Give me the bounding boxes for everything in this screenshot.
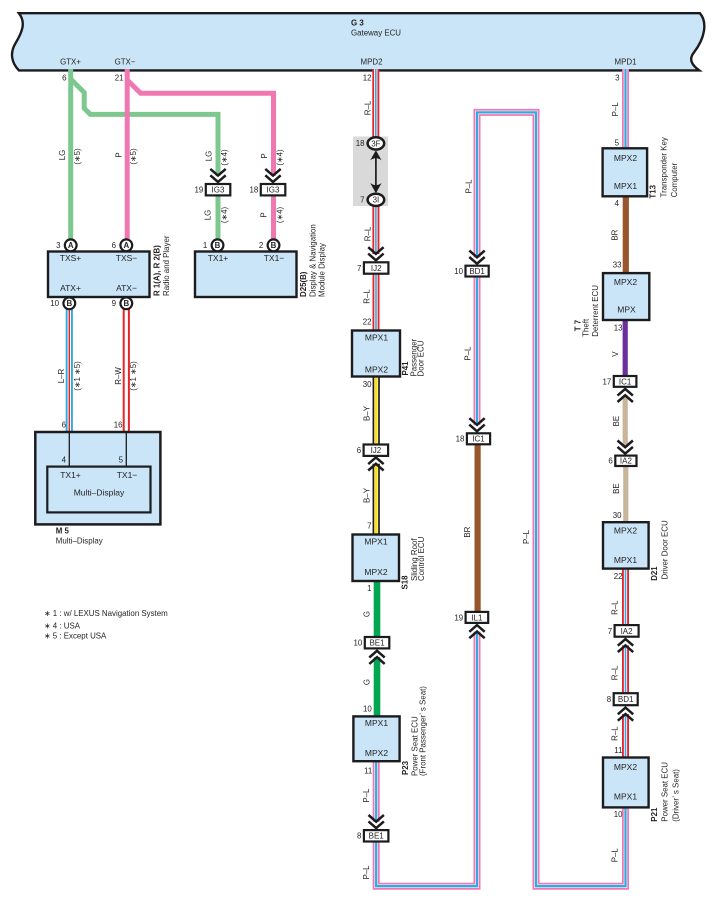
svg-text:BE1: BE1	[369, 832, 385, 841]
svg-text:IG3: IG3	[267, 186, 280, 195]
svg-text:P–L: P–L	[610, 848, 619, 863]
legend notes	[44, 609, 168, 641]
svg-text:19: 19	[194, 186, 203, 195]
label (*4) below IG3 pink	[276, 207, 285, 224]
label (*4) above IG3 green	[220, 149, 229, 166]
svg-text:MPX1: MPX1	[614, 181, 637, 191]
svg-text:10: 10	[363, 704, 372, 713]
pin 11 P21	[614, 746, 622, 755]
arrow into BD1 pin 10	[469, 251, 484, 264]
wire LG branch to junction IG3	[71, 79, 218, 176]
svg-text:22: 22	[614, 572, 623, 581]
label P-L below BE1	[362, 865, 371, 880]
svg-text:A: A	[123, 241, 129, 250]
svg-text:(∗1 ∗5): (∗1 ∗5)	[129, 361, 138, 391]
svg-text:P23: P23	[401, 760, 410, 775]
svg-text:R–L: R–L	[363, 289, 372, 304]
P23 terminal labels	[365, 718, 388, 758]
junction connector BE1 pin 10	[353, 637, 389, 648]
M5 name	[56, 526, 103, 545]
label P *4 below IG3	[260, 212, 269, 217]
svg-text:R–L: R–L	[611, 665, 620, 680]
svg-text:MPD2: MPD2	[361, 58, 383, 67]
svg-text:(∗4): (∗4)	[276, 149, 285, 166]
svg-text:MPX1: MPX1	[364, 537, 387, 547]
wire R-L junction IJ2 to P41 pin 22	[373, 273, 380, 332]
pin 12 MPD2	[363, 74, 372, 83]
svg-text:Theft: Theft	[582, 318, 591, 337]
label P *5	[115, 152, 124, 157]
label B-Y above S18	[363, 487, 372, 503]
svg-text:Display & Navigation: Display & Navigation	[309, 224, 318, 297]
label G3	[351, 18, 401, 37]
label BR center	[463, 526, 472, 537]
svg-text:Radio and Player: Radio and Player	[162, 235, 171, 296]
svg-text:BE: BE	[612, 416, 621, 427]
svg-text:4: 4	[62, 456, 67, 465]
P41 terminal labels	[365, 333, 388, 375]
svg-text:P: P	[260, 153, 269, 158]
svg-text:IJ2: IJ2	[371, 446, 382, 455]
junction connector IG3 pin 19	[194, 184, 230, 195]
pin 3 MPD1	[615, 73, 620, 82]
svg-text:BR: BR	[611, 229, 620, 240]
svg-text:G 3: G 3	[351, 18, 364, 27]
junction connector IA2 pin 6	[608, 456, 636, 466]
svg-text:17: 17	[603, 377, 612, 386]
svg-text:18: 18	[456, 435, 465, 444]
P23 name	[401, 686, 428, 776]
junction connector BD1 pin 10	[454, 266, 488, 277]
svg-text:30: 30	[613, 511, 622, 520]
svg-text:P: P	[260, 212, 269, 217]
svg-text:MPX: MPX	[617, 305, 636, 315]
junction connector IC1 pin 18	[456, 433, 490, 444]
svg-text:S18: S18	[401, 575, 410, 590]
svg-text:MPX2: MPX2	[614, 762, 637, 772]
svg-text:10: 10	[50, 299, 59, 308]
wire P-L junction BD1 to junction IC1	[474, 276, 481, 425]
label (*1 *5) right	[129, 361, 138, 391]
svg-text:G: G	[362, 679, 371, 685]
svg-text:(∗4): (∗4)	[220, 207, 229, 224]
radio box terminal labels	[60, 253, 138, 293]
svg-text:6: 6	[357, 446, 362, 455]
wire BE junction IC1 to junction IA2	[623, 395, 628, 447]
wire BE junction IA2 to D21 pin 30	[623, 466, 628, 523]
svg-text:P: P	[115, 152, 124, 157]
M5 internal wires	[69, 432, 126, 467]
M5 pin numbers	[62, 421, 124, 465]
svg-text:P–L: P–L	[464, 346, 473, 361]
wire B-Y P41 pin 30 to junction IJ2	[373, 376, 380, 445]
svg-text:33: 33	[613, 260, 622, 269]
connector oval 3F pin 18	[356, 137, 384, 149]
svg-text:IA2: IA2	[620, 457, 633, 466]
terminal circle B pin 10	[50, 297, 75, 309]
ECU box R1(A),R2(B) Radio and Player	[48, 252, 150, 298]
svg-text:BD1: BD1	[469, 267, 485, 276]
svg-text:(Front Passenger’ s Seat): (Front Passenger’ s Seat)	[419, 686, 428, 776]
svg-text:MPX2: MPX2	[614, 153, 637, 163]
label P-L loop left	[465, 179, 474, 194]
wire B-Y junction IJ2 to S18 pin 7	[373, 464, 380, 535]
svg-text:5: 5	[615, 138, 620, 147]
shield connector block 3F-3I background	[353, 137, 388, 207]
svg-text:Power Seat ECU: Power Seat ECU	[660, 762, 669, 822]
ECU box D25(B) Display and Navigation Module Display	[195, 252, 297, 298]
wire R-L MPD2 pin 12 to connector 3F	[372, 69, 379, 139]
svg-text:P–L: P–L	[522, 529, 531, 544]
svg-text:1: 1	[203, 241, 207, 250]
label LG *5	[58, 150, 67, 161]
svg-text:BE: BE	[612, 483, 621, 494]
D25 box terminal labels	[208, 253, 285, 263]
svg-text:(∗4): (∗4)	[276, 207, 285, 224]
svg-text:Door ECU: Door ECU	[416, 340, 425, 376]
label R-L above P41	[363, 289, 372, 304]
svg-text:∗ 4 : USA: ∗ 4 : USA	[44, 621, 81, 630]
wire BR junction IC1 to junction IL1	[475, 444, 481, 613]
arrow out of IJ2 pin 6	[368, 457, 383, 470]
label V	[611, 351, 620, 357]
ECU box M5 Multi-Display outer	[35, 432, 160, 524]
svg-text:B: B	[66, 299, 72, 308]
arrow out of BE1 pin 10	[369, 651, 384, 664]
label (*5) left pink	[129, 148, 138, 165]
svg-text:(∗1 ∗5): (∗1 ∗5)	[73, 361, 82, 391]
svg-text:12: 12	[363, 74, 372, 83]
svg-text:IC1: IC1	[472, 435, 485, 444]
label R-L below D21	[611, 600, 620, 615]
terminal circle A pin 6	[112, 239, 133, 251]
svg-text:ATX−: ATX−	[116, 283, 137, 293]
wire G junction BE1 to P23 pin 10	[374, 657, 381, 717]
svg-text:TX1−: TX1−	[117, 470, 138, 480]
svg-text:TXS−: TXS−	[116, 253, 138, 263]
junction connector IJ2 pin 7	[357, 262, 388, 273]
terminal circle B pin 2	[259, 239, 279, 251]
label B-Y below P41	[363, 405, 372, 421]
wire P-L junction BE1 to junction IL1	[376, 632, 477, 887]
svg-text:22: 22	[363, 318, 372, 327]
T13 name	[649, 137, 679, 198]
svg-text:IA2: IA2	[621, 627, 634, 636]
P21 terminal labels	[614, 762, 637, 802]
ECU box P41 Passenger Door ECU	[352, 331, 400, 377]
label (*4) below IG3 green	[220, 207, 229, 224]
junction connector IG3 pin 18	[249, 184, 285, 195]
junction connector IA2 pin 7	[608, 625, 639, 637]
svg-text:L–R: L–R	[57, 368, 66, 383]
label (*4) above IG3 pink	[276, 149, 285, 166]
svg-text:4: 4	[615, 199, 620, 208]
radio box name	[153, 235, 172, 296]
gateway ECU bus bar G3	[12, 13, 704, 70]
svg-text:3I: 3I	[373, 196, 380, 205]
S18 name	[401, 536, 427, 589]
pin 4 T13	[615, 199, 620, 208]
T7 terminal labels	[614, 277, 637, 315]
arrow out of IA2 pin 7	[618, 639, 633, 652]
svg-text:MPD1: MPD1	[615, 58, 637, 67]
svg-text:Driver Door ECU: Driver Door ECU	[660, 520, 669, 579]
svg-text:13: 13	[614, 324, 623, 333]
pin 21 GTX-	[115, 73, 124, 82]
svg-text:∗ 1 : w/ LEXUS Navigation Syst: ∗ 1 : w/ LEXUS Navigation System	[44, 609, 168, 618]
ECU box P21 Power Seat ECU driver	[603, 758, 649, 808]
svg-text:V: V	[611, 351, 620, 357]
D25 box name	[299, 224, 327, 297]
svg-text:3: 3	[56, 241, 61, 250]
pin 10 P21	[614, 810, 623, 819]
svg-text:9: 9	[112, 299, 117, 308]
pin 22 D21	[614, 572, 623, 581]
svg-text:MPX2: MPX2	[365, 365, 388, 375]
junction connector IC1 pin 17	[603, 376, 637, 387]
wire P-L P23 pin 11 to junction BE1	[373, 761, 380, 822]
svg-text:(∗4): (∗4)	[220, 149, 229, 166]
svg-text:P–L: P–L	[611, 102, 620, 117]
ECU box D21 Driver Door ECU	[603, 522, 649, 568]
pin 13 T7	[614, 324, 623, 333]
wire LG junction IG3 to D25 TX1+	[216, 195, 221, 246]
svg-text:2: 2	[259, 241, 263, 250]
svg-text:7: 7	[608, 627, 612, 636]
P21 name	[650, 762, 681, 822]
svg-text:MPX1: MPX1	[614, 555, 637, 565]
svg-text:MPX1: MPX1	[365, 718, 388, 728]
label G above P23	[362, 679, 371, 685]
svg-text:11: 11	[614, 746, 622, 755]
wire P from GTX- pin 21 to radio TXS-	[125, 69, 130, 246]
svg-text:MPX2: MPX2	[365, 748, 388, 758]
svg-text:6: 6	[62, 421, 67, 430]
ECU box T13 Transponder Key Computer	[603, 148, 648, 196]
terminal circle B pin 9	[112, 297, 133, 309]
svg-text:7: 7	[357, 264, 361, 273]
svg-text:A: A	[68, 241, 74, 250]
T7 name	[574, 285, 600, 337]
svg-text:LG: LG	[205, 151, 214, 162]
pin 30 P41	[363, 380, 372, 389]
svg-text:16: 16	[114, 421, 123, 430]
svg-text:8: 8	[607, 695, 612, 704]
arrow out of IL1 pin 19	[469, 625, 484, 638]
svg-text:R–L: R–L	[611, 600, 620, 615]
svg-text:TX1−: TX1−	[264, 253, 285, 263]
arrow out of IC1 pin 17	[618, 389, 633, 402]
arrow into IJ2 pin 7	[368, 247, 383, 260]
svg-text:R–L: R–L	[611, 726, 620, 741]
svg-text:R 1(A), R 2(B): R 1(A), R 2(B)	[153, 245, 162, 296]
svg-text:GTX+: GTX+	[60, 58, 81, 67]
wire R-L connector 3I to junction IJ2	[372, 205, 379, 254]
pin 7 S18	[367, 522, 371, 531]
svg-text:5: 5	[119, 456, 124, 465]
svg-text:10: 10	[614, 810, 623, 819]
pin 30 D21	[613, 511, 622, 520]
wire P-L MPD1 pin 3 to T13 pin 5	[622, 69, 629, 149]
svg-text:(Driver’ s Seat): (Driver’ s Seat)	[672, 769, 681, 822]
svg-text:B: B	[123, 299, 129, 308]
label BE above IA2	[612, 416, 621, 427]
svg-text:7: 7	[367, 522, 371, 531]
arrow into BE1 pin 8	[369, 815, 384, 828]
svg-text:6: 6	[608, 457, 613, 466]
T13 terminal labels	[614, 153, 637, 191]
label (*5) left green	[73, 148, 82, 165]
svg-text:B: B	[271, 241, 277, 250]
arrow out of BD1 pin 8	[618, 708, 633, 721]
svg-text:21: 21	[115, 73, 124, 82]
label R-L above BD1	[611, 665, 620, 680]
svg-text:11: 11	[364, 766, 372, 775]
label R-L below 3I	[363, 226, 372, 241]
svg-text:MPX2: MPX2	[364, 567, 387, 577]
label G below S18	[362, 611, 371, 617]
svg-text:6: 6	[62, 73, 67, 82]
ECU box P23 Power Seat ECU front passenger	[353, 716, 399, 761]
pin 22 P41	[363, 318, 372, 327]
svg-text:MPX2: MPX2	[614, 277, 637, 287]
svg-text:Multi–Display: Multi–Display	[56, 537, 103, 546]
wire R-L D21 pin 22 to junction IA2	[622, 568, 629, 626]
label P-L below P23	[362, 788, 371, 803]
svg-text:G: G	[362, 611, 371, 617]
svg-text:(∗5): (∗5)	[73, 148, 82, 165]
label R-L above 3F	[363, 100, 372, 115]
svg-text:GTX−: GTX−	[115, 58, 136, 67]
svg-text:TX1+: TX1+	[208, 253, 229, 263]
svg-text:1: 1	[367, 584, 371, 593]
junction connector BD1 pin 8	[607, 693, 638, 705]
svg-text:B–Y: B–Y	[363, 487, 372, 503]
svg-text:Transponder Key: Transponder Key	[660, 137, 669, 197]
pin 1 S18	[367, 584, 371, 593]
D21 name	[650, 520, 669, 581]
wire L-R radio ATX+ to multi-display	[66, 309, 73, 433]
svg-text:BE1: BE1	[369, 639, 385, 648]
junction connector IJ2 pin 6	[357, 445, 388, 456]
label LG *4 below IG3	[204, 210, 213, 221]
P41 name	[401, 338, 425, 376]
svg-text:D21: D21	[650, 566, 659, 581]
svg-text:ATX+: ATX+	[60, 283, 81, 293]
wire G S18 pin 1 to junction BE1	[374, 581, 381, 638]
svg-text:R–L: R–L	[363, 100, 372, 115]
svg-text:Deterrent ECU: Deterrent ECU	[591, 285, 600, 337]
terminal circle B pin 1	[203, 239, 223, 251]
ECU box S18 Sliding Roof Control ECU	[353, 535, 400, 582]
svg-text:IG3: IG3	[212, 186, 225, 195]
label L-R	[57, 368, 66, 383]
svg-text:∗ 5 : Except USA: ∗ 5 : Except USA	[44, 632, 107, 641]
wire R-L junction IA2 to junction BD1	[622, 645, 629, 693]
svg-text:10: 10	[353, 639, 362, 648]
junction connector BE1 pin 8	[357, 830, 388, 841]
svg-text:Control ECU: Control ECU	[417, 536, 426, 581]
pin 33 T7	[613, 260, 622, 269]
svg-text:D25(B): D25(B)	[299, 271, 308, 297]
svg-text:B: B	[215, 241, 221, 250]
label (*1 *5) left	[73, 361, 82, 391]
svg-text:P–L: P–L	[362, 788, 371, 803]
label BE above D21	[612, 483, 621, 494]
wire BR T13 pin 4 to T7 pin 33	[623, 196, 629, 274]
svg-text:P–L: P–L	[465, 179, 474, 194]
svg-text:P21: P21	[650, 807, 659, 822]
svg-text:B–Y: B–Y	[363, 405, 372, 421]
svg-text:19: 19	[454, 613, 463, 622]
svg-text:MPX2: MPX2	[614, 526, 637, 536]
svg-text:Module Display: Module Display	[318, 243, 327, 297]
svg-text:(∗5): (∗5)	[129, 148, 138, 165]
connector oval 3I pin 7	[360, 194, 384, 206]
arrow into IG3 pin 19	[210, 169, 225, 182]
M5 inner module box	[47, 467, 150, 513]
svg-text:7: 7	[360, 196, 364, 205]
svg-text:LG: LG	[58, 150, 67, 161]
svg-text:P–L: P–L	[362, 865, 371, 880]
arrow into IA2 pin 6	[618, 441, 633, 454]
label P-L below MPD1	[611, 102, 620, 117]
svg-text:MPX1: MPX1	[365, 333, 388, 343]
svg-text:TX1+: TX1+	[60, 470, 81, 480]
svg-text:R–L: R–L	[363, 226, 372, 241]
svg-text:IC1: IC1	[619, 377, 632, 386]
svg-text:BD1: BD1	[618, 695, 634, 704]
svg-text:T13: T13	[649, 184, 658, 198]
wire P junction IG3 to D25 TX1-	[271, 195, 276, 246]
svg-text:MPX1: MPX1	[614, 792, 637, 802]
svg-text:LG: LG	[204, 210, 213, 221]
wire LG from GTX+ pin 6 to radio TXS+	[68, 69, 73, 246]
D21 terminal labels	[614, 526, 637, 566]
svg-text:6: 6	[112, 241, 117, 250]
svg-text:R–W: R–W	[114, 367, 123, 385]
svg-text:Multi–Display: Multi–Display	[74, 487, 125, 497]
svg-text:Computer: Computer	[670, 162, 679, 197]
svg-text:30: 30	[363, 380, 372, 389]
M5 terminal labels	[60, 470, 137, 497]
label P-L long wire	[522, 529, 531, 544]
arrow into IG3 pin 18	[265, 169, 280, 182]
pin 6 GTX+	[62, 73, 67, 82]
label BR right	[611, 229, 620, 240]
pin 11 P23	[364, 766, 372, 775]
svg-text:10: 10	[454, 267, 463, 276]
label R-W	[114, 367, 123, 385]
svg-text:M 5: M 5	[56, 526, 70, 535]
ECU box T7 Theft Deterrent ECU	[603, 273, 649, 320]
svg-text:Gateway ECU: Gateway ECU	[351, 29, 401, 38]
terminal circle A pin 3	[56, 239, 76, 251]
pin 10 P23	[363, 704, 372, 713]
svg-text:IJ2: IJ2	[371, 264, 382, 273]
bar terminal labels	[60, 58, 636, 67]
arrow into IC1 pin 18	[469, 418, 484, 431]
label P-L above IC1 center	[464, 346, 473, 361]
wire R-L junction BD1 to P21 pin 11	[622, 714, 629, 758]
wire P-L loop from junction BD1 up over and down to P21 pin 10	[477, 112, 626, 886]
svg-text:BR: BR	[463, 526, 472, 537]
wire V T7 pin 13 to junction IC1	[623, 320, 628, 377]
svg-text:3F: 3F	[371, 139, 380, 148]
pin 5 T13	[615, 138, 620, 147]
svg-text:3: 3	[615, 73, 620, 82]
label P *4 above IG3	[260, 153, 269, 158]
